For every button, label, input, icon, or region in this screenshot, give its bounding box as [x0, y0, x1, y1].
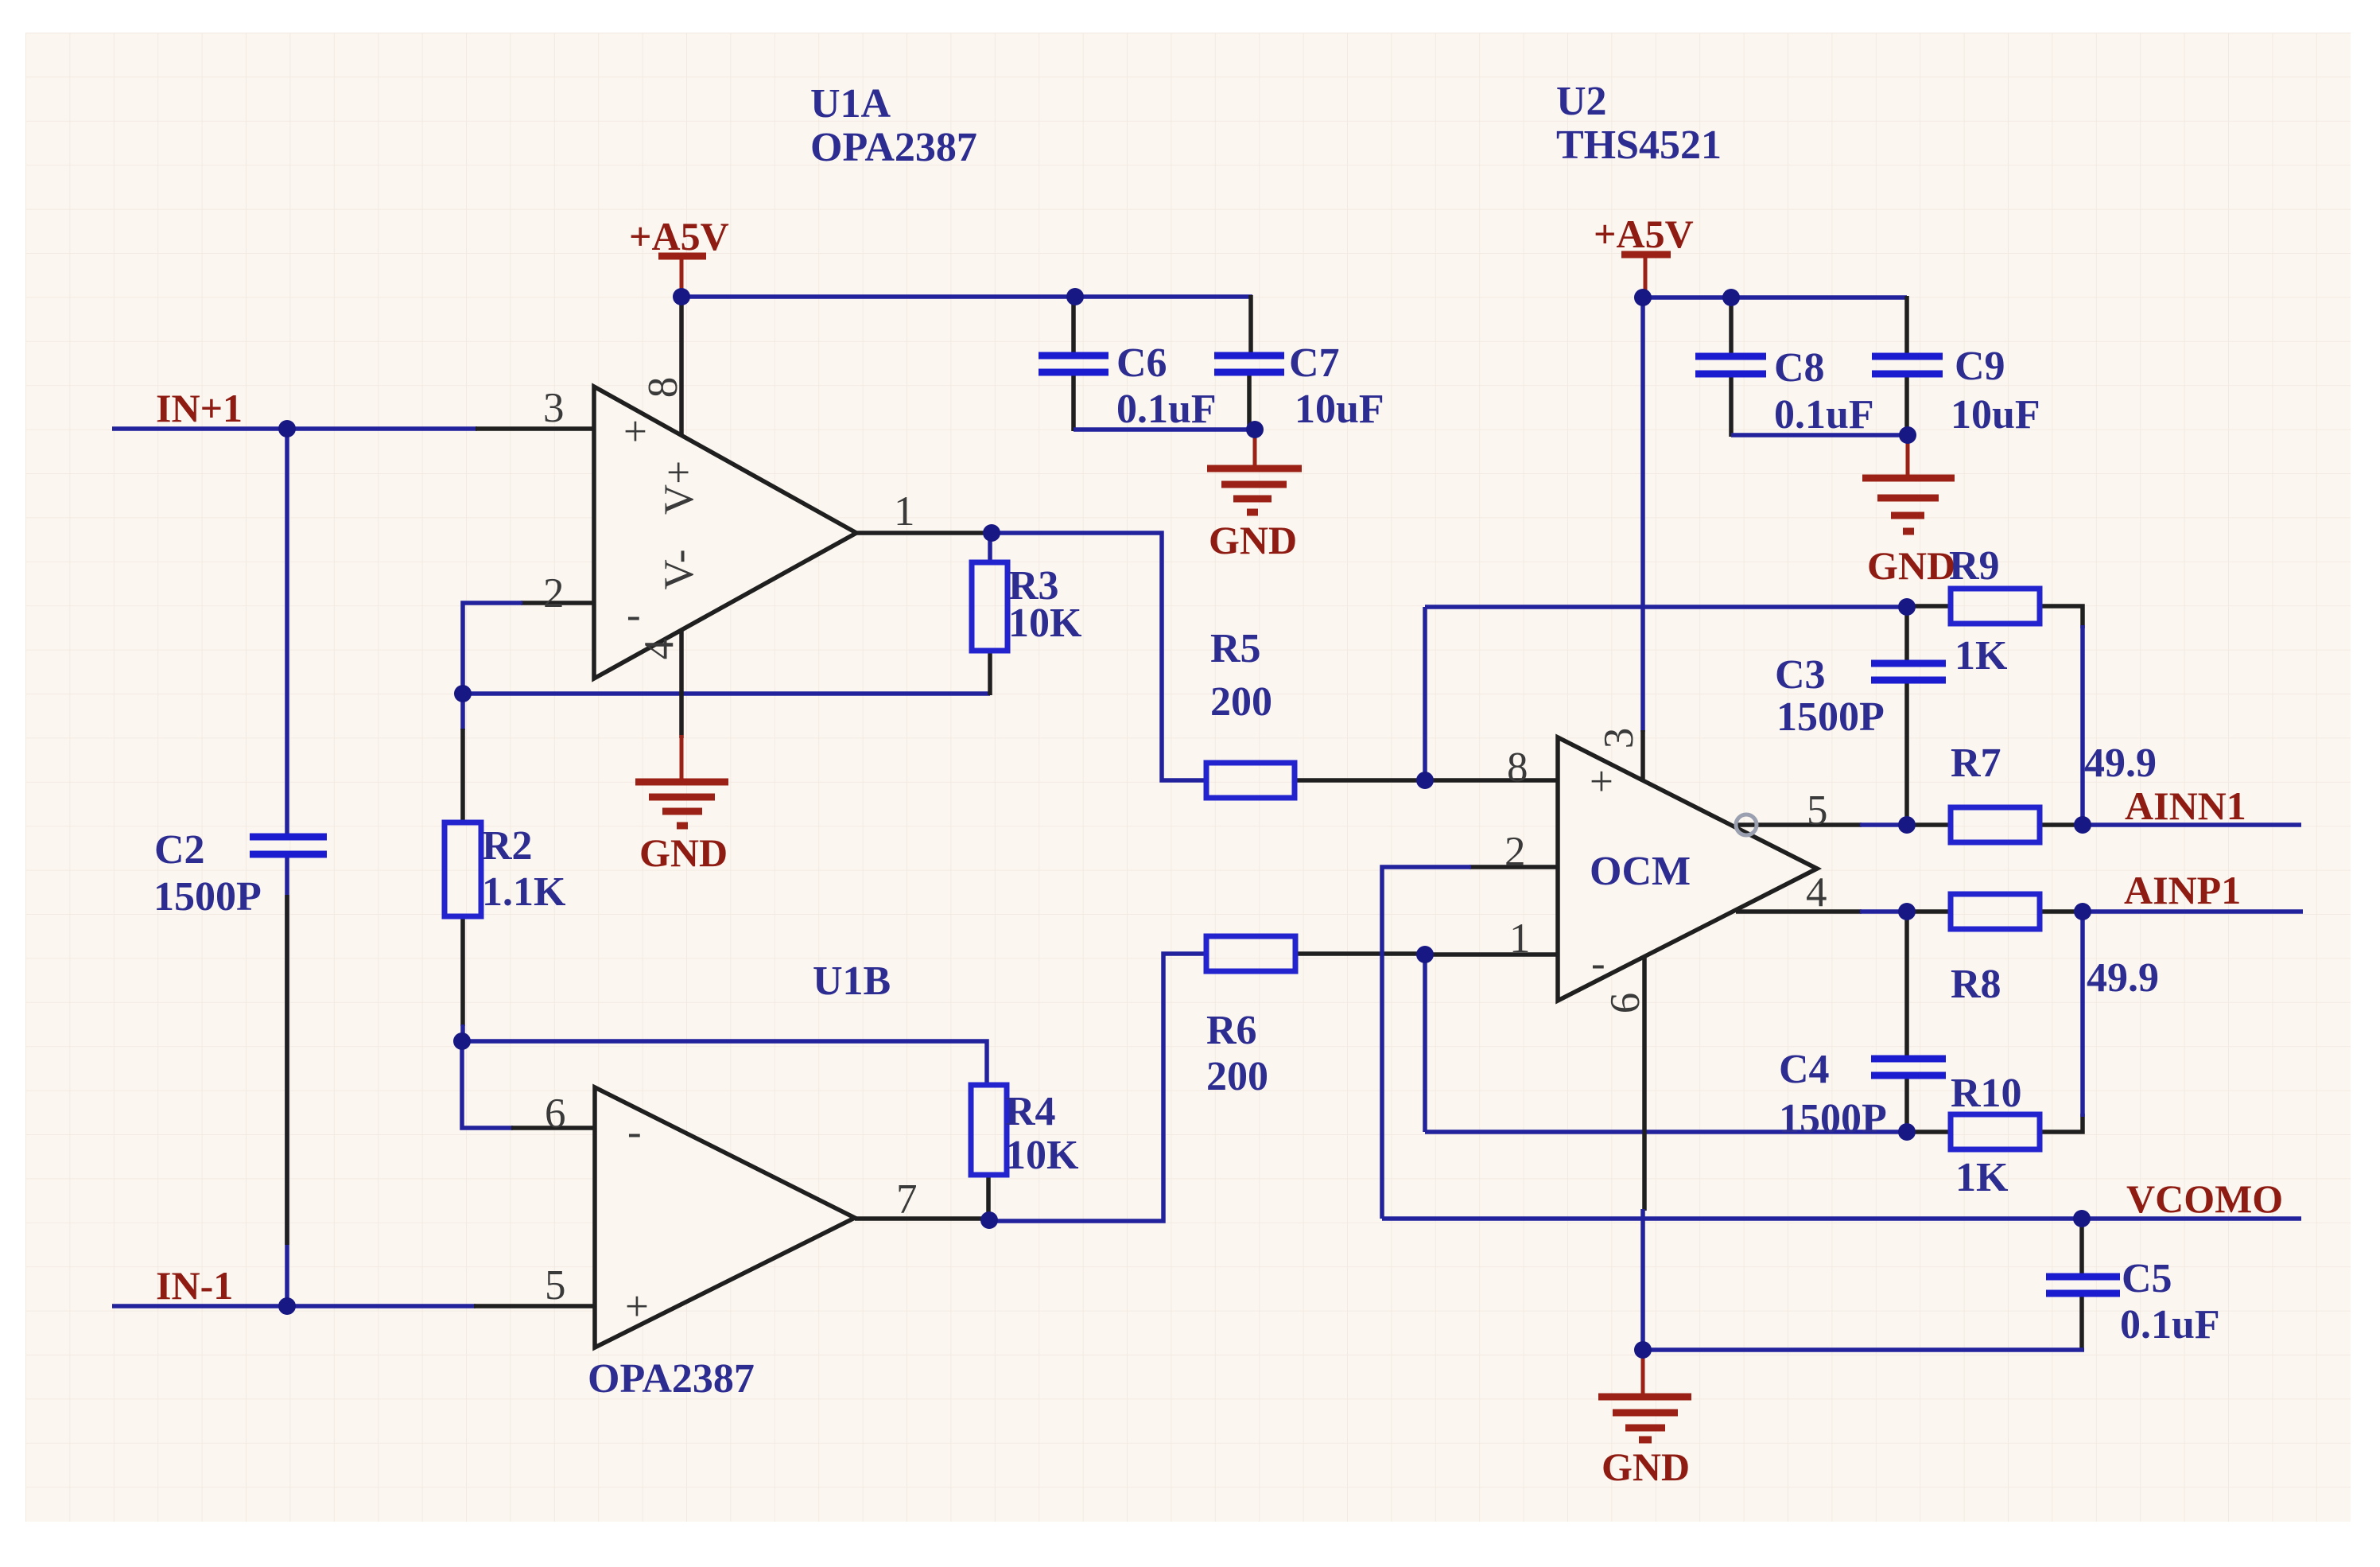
svg-text:R2: R2: [482, 823, 533, 869]
resistor R10 body: [1951, 1114, 2040, 1149]
node C4 bottom feedback: [1898, 1123, 1916, 1141]
svg-text:OPA2387: OPA2387: [810, 125, 977, 170]
wire C6 C7 bottom rail: [1074, 427, 1255, 432]
op-amp U1B OPA2387 triangle: [595, 1087, 855, 1347]
wire vertical node to top feedback row: [1423, 607, 1427, 780]
wire U1A output pin1: [856, 531, 994, 535]
svg-text:THS4521: THS4521: [1556, 122, 1722, 168]
svg-text:C8: C8: [1774, 345, 1825, 391]
svg-text:IN-1: IN-1: [156, 1263, 233, 1308]
wire C4 top lead: [1904, 913, 1909, 1056]
svg-text:+A5V: +A5V: [629, 214, 729, 259]
wire C2 vertical from IN+1 node: [285, 429, 289, 834]
svg-text:R8: R8: [1951, 962, 2001, 1007]
wire R9 left lead: [1907, 604, 1951, 609]
wire C3 bottom lead: [1904, 682, 1909, 825]
wire U1A pin8 stub: [679, 298, 684, 435]
svg-text:0.1uF: 0.1uF: [2120, 1302, 2220, 1347]
svg-text:GND: GND: [1867, 543, 1955, 588]
svg-text:49.9: 49.9: [2084, 741, 2157, 786]
svg-text:+: +: [1590, 759, 1613, 805]
wire C6 top lead: [1071, 298, 1076, 353]
wire R10 right lead corner up: [2040, 1114, 2083, 1132]
node U1B output R4: [980, 1211, 998, 1229]
svg-text:-: -: [627, 1109, 642, 1155]
node R9 AINN1: [2074, 816, 2091, 834]
svg-text:R7: R7: [1951, 741, 2001, 786]
svg-text:R5: R5: [1210, 626, 1261, 671]
wire U2 pin8 stub: [1425, 778, 1558, 783]
svg-text:4: 4: [636, 639, 682, 660]
svg-text:OPA2387: OPA2387: [588, 1356, 755, 1402]
svg-text:C3: C3: [1775, 652, 1826, 698]
node IN+1 junction: [278, 420, 296, 437]
wire C8 bottom lead: [1729, 376, 1734, 437]
capacitor C5 plates: [2046, 1273, 2120, 1281]
svg-text:200: 200: [1210, 679, 1272, 725]
wire U2 pin3 vertical: [1640, 297, 1645, 732]
svg-text:6: 6: [545, 1091, 566, 1137]
svg-text:6: 6: [1602, 993, 1648, 1014]
ground bottom under U2: [1598, 1350, 1691, 1440]
svg-text:U2: U2: [1556, 79, 1607, 124]
svg-text:C9: C9: [1955, 344, 2005, 389]
svg-text:C7: C7: [1289, 340, 1340, 386]
wire U2 pin2 stub: [1470, 865, 1558, 869]
wire U2 pin1 node vertical to bottom feedback: [1423, 955, 1427, 1132]
wire U2 top feedback row: [1425, 605, 1907, 609]
svg-text:4: 4: [1806, 869, 1827, 916]
wire U2 pin6 vertical to GND: [1642, 956, 1647, 1211]
wire U2 pin4 output: [1736, 909, 1862, 914]
wire C8 top lead: [1729, 298, 1734, 354]
svg-text:5: 5: [545, 1262, 566, 1308]
ground under C9: [1862, 435, 1955, 531]
node GND bottom: [1634, 1341, 1652, 1359]
svg-text:C2: C2: [154, 827, 205, 873]
node C6 tap: [1066, 288, 1084, 305]
wire C7 top lead corner: [1248, 295, 1253, 353]
svg-text:VCOMO: VCOMO: [2126, 1176, 2283, 1221]
wire C6 bottom lead: [1071, 375, 1076, 431]
capacitor C7 plates: [1214, 352, 1284, 360]
svg-text:V-: V-: [656, 549, 702, 589]
node U1A feedback R2: [454, 685, 472, 702]
node C3 R9 top: [1898, 598, 1916, 616]
wire U2 pin1 stub: [1425, 952, 1558, 957]
svg-text:V+: V+: [656, 461, 702, 515]
svg-text:1500P: 1500P: [1776, 694, 1885, 740]
svg-text:AINP1: AINP1: [2124, 868, 2241, 912]
wire C9 bottom lead: [1904, 376, 1909, 437]
resistor R2 body: [445, 822, 481, 916]
ground under U1A pin4: [635, 735, 728, 826]
svg-text:0.1uF: 0.1uF: [1116, 387, 1217, 432]
svg-text:C4: C4: [1779, 1047, 1830, 1092]
wire U1B pin5 stub: [474, 1304, 595, 1308]
svg-text:IN+1: IN+1: [156, 386, 243, 430]
svg-text:R6: R6: [1206, 1008, 1257, 1053]
node U1B feedback R2: [453, 1032, 471, 1050]
capacitor C4 plates: [1871, 1056, 1946, 1063]
node R5 pin8: [1416, 772, 1434, 789]
wire R2 bottom lead: [460, 916, 465, 1026]
node C3 AINN1: [1898, 816, 1916, 834]
node C8 tap: [1722, 289, 1740, 306]
power +A5V left symbol: [658, 253, 706, 260]
wire C7 bottom lead: [1247, 375, 1252, 431]
svg-text:1K: 1K: [1955, 1155, 2009, 1200]
wire U1A feedback row: [463, 691, 990, 696]
op-amp U2 THS4521 triangle: [1558, 737, 1817, 1001]
wire R3 top lead: [988, 535, 992, 562]
svg-text:+A5V: +A5V: [1594, 212, 1694, 256]
wire R5 right to U2 node: [1294, 778, 1427, 783]
U2 pin5 output bubble: [1736, 815, 1757, 835]
capacitor C9 plates: [1872, 353, 1943, 360]
wire C8 C9 bottom rail: [1731, 433, 1908, 437]
svg-text:+: +: [623, 409, 647, 455]
wire C5 bottom lead and bottom row: [2079, 1296, 2084, 1348]
capacitor C3 plates: [1871, 660, 1946, 667]
node R6 pin1: [1416, 946, 1434, 963]
resistor R8 body: [1951, 894, 2040, 929]
resistor R6 body: [1206, 936, 1295, 971]
wire R9 right lead and corner down: [2040, 606, 2083, 628]
svg-text:10uF: 10uF: [1295, 387, 1384, 432]
node C5 VCOMO: [2073, 1210, 2091, 1227]
svg-text:8: 8: [640, 377, 686, 399]
wire AINP1 net: [1860, 909, 1908, 914]
svg-text:1.1K: 1.1K: [482, 869, 566, 915]
capacitor C6 plates: [1039, 352, 1108, 360]
svg-text:49.9: 49.9: [2087, 955, 2159, 1001]
wire U1B output pin7: [855, 1216, 992, 1221]
wire C5 top lead: [2079, 1220, 2084, 1274]
svg-text:GND: GND: [639, 830, 728, 875]
svg-text:1: 1: [1509, 916, 1531, 962]
wire C4 bottom lead: [1904, 1078, 1909, 1132]
svg-text:10K: 10K: [1005, 1133, 1079, 1178]
node C9 GND: [1899, 426, 1916, 444]
wire U1A pin2 stub: [521, 601, 594, 605]
svg-text:1500P: 1500P: [153, 874, 262, 920]
svg-text:10K: 10K: [1008, 601, 1082, 646]
svg-text:3: 3: [1596, 728, 1642, 749]
resistor R4 body: [971, 1085, 1007, 1175]
svg-text:GND: GND: [1209, 518, 1297, 562]
wire U1A pin3 stub: [476, 426, 594, 431]
svg-text:1K: 1K: [1955, 633, 2008, 679]
svg-text:2: 2: [1504, 829, 1526, 875]
wire R10 left lead: [1907, 1130, 1951, 1134]
svg-text:R4: R4: [1005, 1089, 1056, 1134]
svg-text:U1B: U1B: [813, 958, 891, 1004]
node R10 AINP1: [2074, 903, 2091, 920]
svg-text:C5: C5: [2122, 1256, 2172, 1301]
svg-text:C6: C6: [1116, 340, 1167, 386]
svg-text:+: +: [625, 1284, 649, 1330]
node C7 GND: [1246, 421, 1264, 438]
wire +A5V right rail: [1643, 295, 1907, 300]
svg-text:7: 7: [896, 1176, 918, 1223]
resistor R5 body: [1206, 763, 1295, 798]
wire U1B pin6 from feedback node: [462, 1041, 513, 1128]
wire IN-1 net: [112, 1304, 476, 1308]
power +A5V right symbol: [1621, 251, 1671, 259]
resistor R7 body: [1951, 807, 2040, 842]
wire R3 bottom lead: [988, 651, 992, 695]
svg-text:-: -: [1591, 940, 1605, 986]
resistor R9 body: [1951, 589, 2040, 624]
node C4 AINP1: [1898, 903, 1916, 920]
wire U1B feedback row: [462, 1041, 987, 1085]
node +A5V right: [1634, 289, 1652, 306]
node +A5V left: [673, 288, 690, 305]
wire U2 pin5 output: [1734, 822, 1862, 827]
svg-text:3: 3: [543, 385, 565, 431]
wire R6 left from VCOMO tap: [987, 954, 1206, 1221]
resistor R3 body: [972, 562, 1008, 651]
op-amp U1A OPA2387 triangle: [594, 387, 856, 679]
svg-text:2: 2: [543, 570, 565, 616]
svg-text:10uF: 10uF: [1951, 392, 2040, 437]
wire U1A pin2 to feedback corner: [463, 603, 522, 694]
svg-text:5: 5: [1807, 787, 1828, 834]
svg-text:OCM: OCM: [1590, 849, 1691, 894]
wire VCOMO net: [1382, 1216, 2301, 1221]
svg-text:R10: R10: [1951, 1071, 2022, 1116]
wire C2 lead black mid segment: [285, 895, 289, 1245]
svg-text:200: 200: [1206, 1054, 1268, 1099]
svg-text:U1A: U1A: [810, 81, 891, 126]
svg-text:AINN1: AINN1: [2125, 783, 2246, 828]
svg-text:8: 8: [1507, 745, 1528, 791]
node U1A output R3: [983, 524, 1000, 542]
wire +A5V left rail: [681, 294, 1075, 299]
wire U1A pin4 stub: [679, 630, 684, 738]
wire bottom feedback row: [1425, 1130, 1907, 1134]
svg-text:1: 1: [894, 488, 915, 535]
wire C2 bottom to IN-1 node: [285, 857, 289, 1306]
svg-text:-: -: [627, 592, 641, 638]
svg-text:0.1uF: 0.1uF: [1774, 392, 1874, 437]
capacitor C2 plates: [250, 834, 327, 841]
wire U1A out to R5: [992, 533, 1206, 780]
svg-text:GND: GND: [1602, 1445, 1690, 1489]
wire AINN1 net: [1860, 822, 1908, 827]
wire R2 top lead: [460, 694, 465, 730]
wire R4 bottom lead: [986, 1175, 991, 1220]
wire vertical R9 to AINN1: [2080, 625, 2085, 825]
ground under C7: [1207, 430, 1302, 512]
wire U1B pin6 stub: [511, 1126, 595, 1130]
svg-text:1500P: 1500P: [1779, 1096, 1887, 1141]
node IN-1 junction: [278, 1297, 296, 1315]
svg-text:R9: R9: [1949, 543, 2000, 589]
capacitor C8 plates: [1695, 353, 1766, 360]
wire R6 right to pin1 node: [1294, 951, 1427, 956]
wire IN+1 net: [112, 426, 477, 431]
wire C9 top lead corner: [1904, 296, 1909, 354]
wire vertical R10 to AINP1: [2080, 912, 2085, 1117]
wire C3 top lead: [1904, 608, 1909, 661]
wire U2 pin2 to VCOMO: [1382, 867, 1471, 1219]
